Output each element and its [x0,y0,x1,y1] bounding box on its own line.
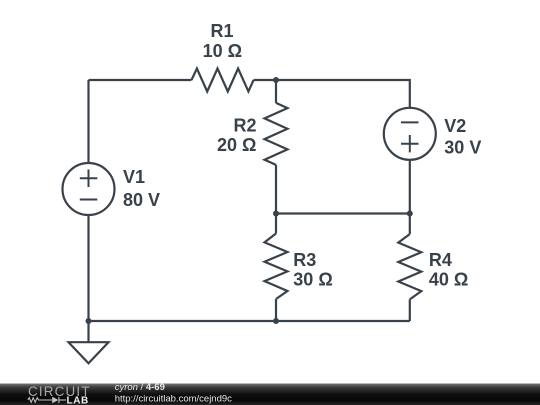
svg-text:V1: V1 [123,167,145,187]
svg-text:R2: R2 [233,116,256,136]
svg-text:R4: R4 [429,250,452,270]
svg-text:20 Ω: 20 Ω [217,135,256,155]
svg-text:V2: V2 [444,116,466,136]
svg-text:30 V: 30 V [444,138,481,158]
svg-text:R1: R1 [210,21,233,41]
svg-text:http://circuitlab.com/cejnd9c: http://circuitlab.com/cejnd9c [115,394,232,405]
svg-text:80 V: 80 V [123,190,160,210]
svg-text:30 Ω: 30 Ω [293,270,332,290]
svg-text:LAB: LAB [67,395,89,405]
svg-text:cyron / 4-69: cyron / 4-69 [115,382,165,393]
svg-text:10 Ω: 10 Ω [203,41,242,61]
svg-text:40 Ω: 40 Ω [429,270,468,290]
svg-text:R3: R3 [293,250,316,270]
